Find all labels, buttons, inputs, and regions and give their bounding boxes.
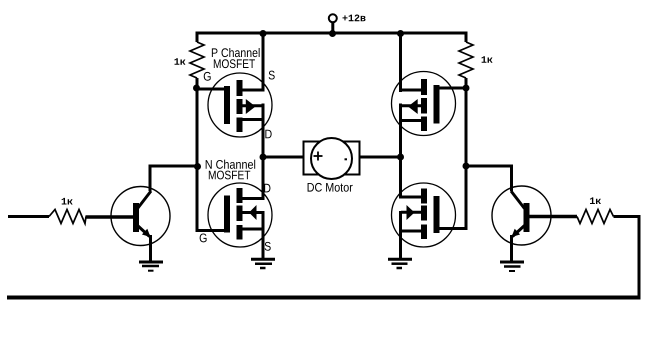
wire left gate branch vertical <box>196 88 199 229</box>
wire right base <box>530 215 578 219</box>
label S pin N <box>265 242 271 251</box>
ground right transistor <box>500 262 524 271</box>
wire right edge vertical <box>638 215 641 300</box>
op P-channel MOSFET Q-PL (top left) <box>195 73 272 137</box>
ground right MOSFET <box>388 259 412 268</box>
label DC Motor <box>308 183 353 192</box>
wire right inner rail (S of P / D of N) <box>399 32 402 259</box>
node junction right rail at top <box>397 30 404 37</box>
node junction +12v on rail <box>329 30 336 37</box>
wire top supply rail <box>196 32 468 35</box>
label +12v <box>342 15 365 22</box>
wire right gate branch vertical <box>465 88 468 229</box>
node junction motor right <box>397 154 404 161</box>
wire motor right lead <box>360 156 401 159</box>
node junction right collector <box>463 163 470 170</box>
wire right collector <box>466 166 513 191</box>
label P Channel MOSFET <box>212 48 260 68</box>
transistor Q2 NPN (right) <box>492 186 551 245</box>
node junction left collector <box>194 163 201 170</box>
wire right resistor to edge <box>614 215 641 218</box>
transistor Q1 NPN (left) <box>111 187 170 246</box>
resistor R1 1k (left vertical) <box>190 32 204 89</box>
label R2 1k <box>482 56 493 63</box>
+12v supply terminal <box>329 14 337 35</box>
label D pin <box>265 130 271 139</box>
op N-channel MOSFET Q-NL (bottom left) <box>208 183 272 247</box>
label N Channel MOSFET <box>206 160 255 180</box>
motor M1 DC Motor <box>304 138 360 179</box>
wire bottom return <box>7 296 641 300</box>
wire left N gate lead <box>196 229 225 232</box>
label G pin N <box>200 233 207 242</box>
ground left transistor <box>139 262 163 271</box>
wire right emitter <box>510 235 513 261</box>
wire motor left lead <box>263 156 304 159</box>
label R3 1k <box>62 198 73 205</box>
ground left MOSFET <box>251 259 275 268</box>
label D pin N <box>264 184 270 193</box>
node junction left rail at top <box>260 30 267 37</box>
node junction right gate (G of P MOSFET) <box>463 85 470 92</box>
wire left collector <box>149 166 198 191</box>
wire left input <box>8 215 49 218</box>
label R1 1k <box>174 58 185 65</box>
node junction motor left <box>260 154 267 161</box>
wire left emitter <box>149 235 152 261</box>
resistor R3 1k (left horizontal) <box>49 210 86 224</box>
node junction left gate (G of P MOSFET) <box>193 85 200 92</box>
label G pin <box>204 72 211 81</box>
resistor R2 1k (right vertical) <box>459 32 473 89</box>
op N-channel MOSFET Q-NR (bottom right) <box>392 183 468 247</box>
op P-channel MOSFET Q-PR (top right) <box>392 72 468 136</box>
wire left base <box>86 215 135 219</box>
resistor R4 1k (right horizontal) <box>577 210 614 224</box>
label R4 1k <box>590 197 601 204</box>
label S pin <box>269 71 275 80</box>
wire left inner rail (S of P / D of N) <box>262 32 265 260</box>
